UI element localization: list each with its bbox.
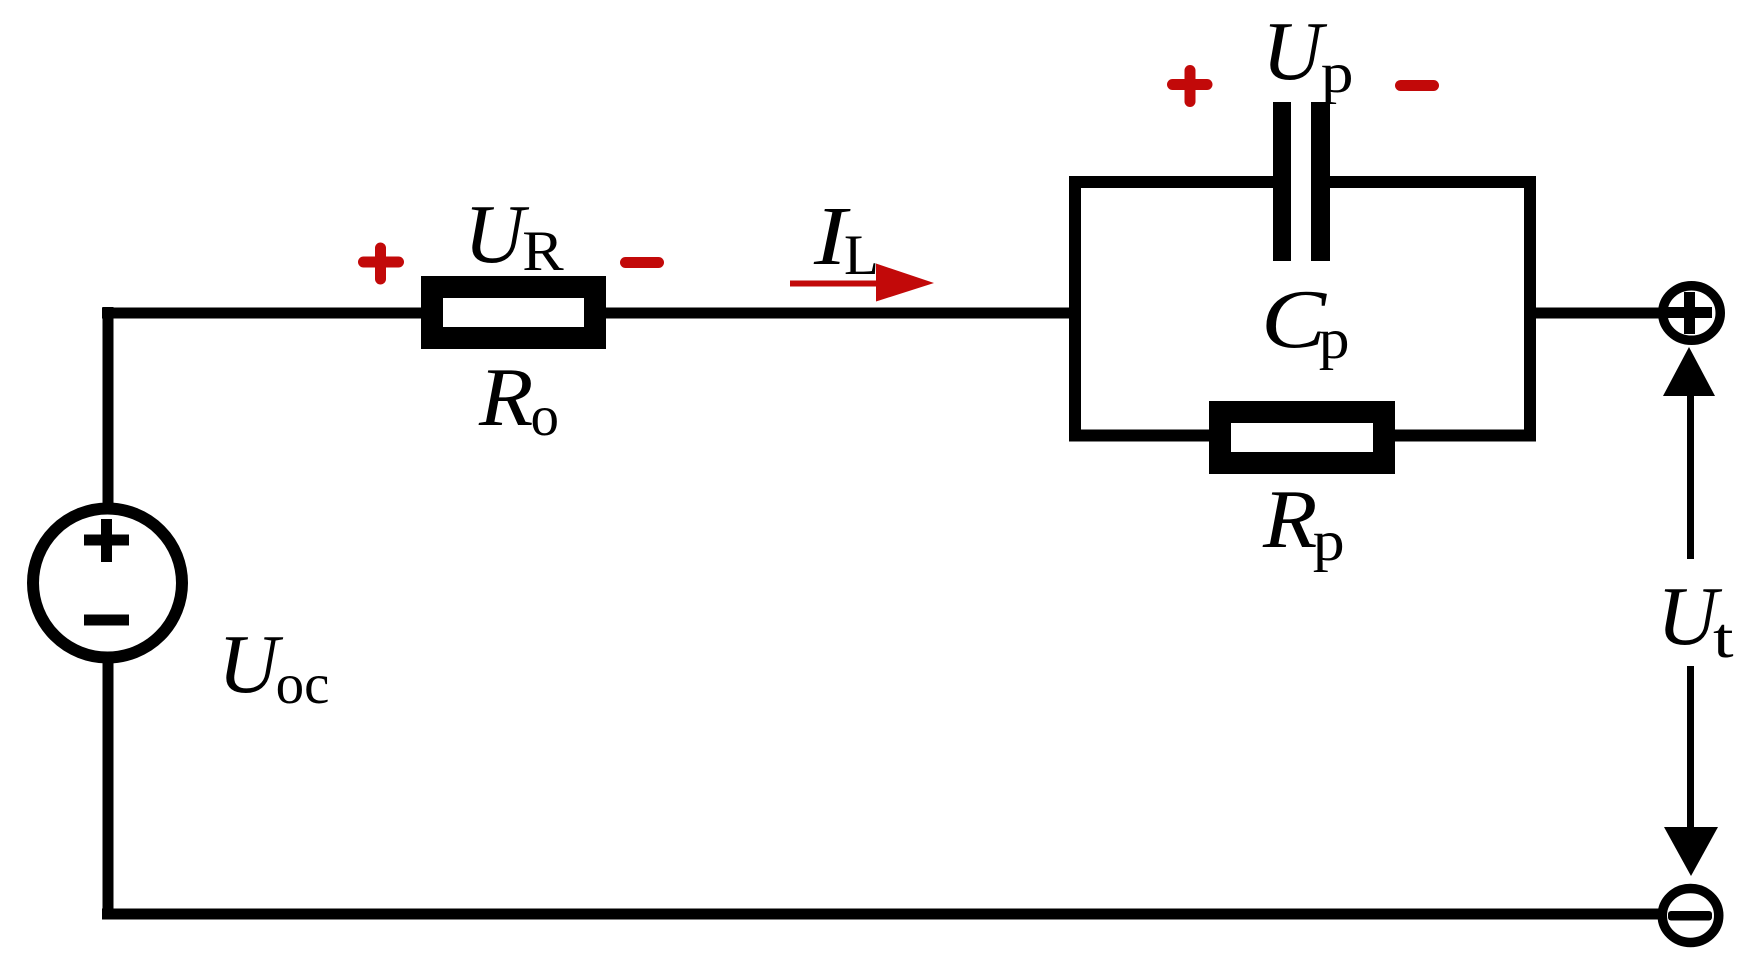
svg-text:L: L	[844, 224, 879, 287]
svg-text:t: t	[1713, 607, 1734, 670]
svg-text:U: U	[464, 188, 530, 281]
svg-text:p: p	[1321, 42, 1354, 105]
svg-text:R: R	[478, 350, 533, 443]
svg-text:R: R	[522, 219, 564, 282]
svg-text:p: p	[1313, 510, 1345, 573]
svg-text:o: o	[531, 385, 560, 448]
svg-text:R: R	[1262, 472, 1317, 565]
svg-text:p: p	[1319, 307, 1350, 370]
svg-text:U: U	[1262, 5, 1328, 98]
svg-text:C: C	[1261, 272, 1327, 365]
